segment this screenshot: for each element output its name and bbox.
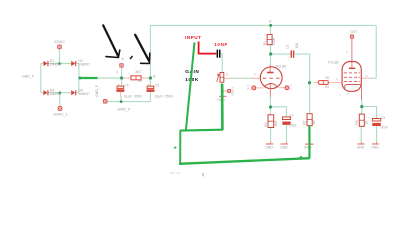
- wire C2 to GND: [286, 125, 288, 143]
- svg-text:R9: R9: [138, 79, 142, 83]
- wire 220AC_1 pin rise: [59, 93, 61, 106]
- ground under C2: [280, 142, 288, 150]
- svg-text:OUT: OUT: [350, 30, 357, 34]
- svg-text:GND: GND: [280, 146, 288, 150]
- cathode arc: [264, 83, 277, 87]
- pin lead pot gnd stub: [224, 90, 228, 92]
- resistor R4 grid stopper: [318, 76, 330, 89]
- node dot triode cathode: [269, 105, 272, 108]
- node dot pot gnd: [221, 90, 224, 93]
- annotation arrow 2: [130, 35, 149, 64]
- ground under R5: [357, 142, 365, 150]
- grid dashes rows: [344, 73, 360, 82]
- wire plate node to C1: [271, 53, 291, 55]
- svg-text:1N4007: 1N4007: [50, 92, 62, 96]
- svg-text:GND: GND: [304, 146, 312, 150]
- svg-text:GND: GND: [357, 146, 365, 150]
- node dot bridge output: [78, 77, 81, 80]
- pin lead pot wiper: [224, 77, 232, 79]
- pentode U2 PCL86: [342, 39, 361, 100]
- pin OUT: [346, 30, 357, 54]
- plate lead from OUT: [351, 39, 353, 69]
- pin 220AC: [54, 40, 65, 49]
- svg-text:C5: C5: [155, 83, 159, 87]
- svg-text:GND: GND: [371, 146, 379, 150]
- wire GND_F rail horizontal: [108, 101, 151, 103]
- wire right edge to pentode pin2: [370, 77, 376, 79]
- cathode lead: [269, 84, 271, 97]
- cathode lead: [361, 84, 363, 100]
- diode D1: [43, 61, 48, 66]
- wire C5 bottom to rail: [149, 92, 151, 102]
- wire grid node down to R2: [309, 83, 311, 114]
- svg-text:PCL86: PCL86: [276, 64, 286, 68]
- wire cathode node to R3: [269, 107, 271, 115]
- svg-text:1N4007: 1N4007: [78, 92, 90, 96]
- annotation arrow 1: [103, 25, 120, 57]
- wire C4 bottom to GND_F rail: [120, 96, 122, 102]
- pin lead pentode pin2 right: [362, 77, 371, 79]
- wire R3 to GND: [270, 128, 272, 144]
- pin heater right triode: [285, 84, 292, 91]
- pin lead triode heater left: [256, 87, 263, 89]
- wire cathode node to R5: [361, 107, 363, 115]
- wire bridge left side: [40, 64, 42, 93]
- annotation green pot-bottom wire: [221, 82, 223, 84]
- wire C1 to pentode grid node: [294, 54, 309, 83]
- resistor R3 cathode: [264, 115, 278, 128]
- svg-text:2: 2: [226, 73, 228, 77]
- ground under C3: [371, 142, 379, 150]
- node dot A: [120, 76, 123, 79]
- capacitor C1: [286, 42, 299, 58]
- diode D3: [43, 90, 48, 95]
- capacitor C2: [282, 114, 296, 128]
- cathode hook: [345, 84, 362, 88]
- svg-text:GND_F: GND_F: [22, 74, 34, 78]
- wire C3 to GND: [376, 126, 378, 143]
- svg-text:GND: GND: [265, 146, 273, 150]
- pin 220AC_1: [53, 106, 68, 116]
- diode D4: [71, 90, 76, 95]
- annotation green tick corner: [299, 156, 302, 159]
- pin A: [116, 57, 125, 74]
- pin lead R4 to pentode: [329, 82, 343, 84]
- resistor R2: [303, 114, 317, 126]
- wire cathode node to C3: [362, 107, 377, 119]
- wire top edge down to R1: [270, 25, 272, 34]
- wire plate node down to triode plate: [270, 54, 272, 65]
- plate lead: [269, 65, 271, 73]
- node dot triode plate: [269, 52, 272, 55]
- node dot 220AC top: [58, 62, 61, 65]
- ground under R3: [265, 142, 273, 150]
- wire 10NF cap to pot top: [221, 54, 223, 73]
- svg-text:31uF / 350V: 31uF / 350V: [124, 94, 143, 98]
- wire B down to C5: [149, 78, 151, 86]
- svg-text:31uF / 350V: 31uF / 350V: [155, 94, 174, 98]
- pin lead triode grid: [251, 77, 261, 79]
- node dot B: [149, 76, 152, 79]
- wire triode cathode down: [269, 97, 271, 107]
- annotation tick mark: [130, 56, 132, 58]
- svg-text:GND_F: GND_F: [95, 85, 99, 97]
- wire bridge top row: [41, 63, 44, 65]
- svg-text:1N4007: 1N4007: [50, 63, 62, 67]
- annotation green bottom wire: [179, 158, 310, 164]
- wire bridge output to node A: [79, 77, 122, 79]
- svg-text:R2: R2: [303, 121, 307, 125]
- grid dashes: [263, 77, 280, 79]
- node dot pentode grid: [308, 81, 311, 84]
- svg-text:R5: R5: [355, 120, 359, 124]
- pin lead triode heater right: [279, 87, 285, 89]
- svg-text:PCL86: PCL86: [328, 61, 338, 65]
- gnd symbol pot: [217, 96, 226, 102]
- annotation capacitor 10NF plates: [217, 50, 219, 58]
- plate bar: [349, 67, 355, 69]
- svg-text:C4: C4: [124, 83, 128, 87]
- pin lead node A to resistor R9: [124, 77, 132, 79]
- svg-text:220AC: 220AC: [54, 40, 65, 44]
- annotation green horizontal mid wire: [180, 129, 223, 132]
- pin GND1 near pot: [227, 87, 234, 96]
- pin GND_F rail: [103, 99, 108, 104]
- svg-text:3K7: 3K7: [135, 70, 141, 74]
- svg-text:20uF: 20uF: [289, 124, 297, 128]
- svg-text:10NF: 10NF: [214, 42, 228, 47]
- wire node A down to C4: [121, 78, 123, 86]
- wire pot wiper to triode grid: [232, 77, 252, 79]
- svg-text:100K: 100K: [272, 37, 276, 46]
- pin lead pentode grid left: [314, 82, 319, 84]
- pin lead C4 bottom: [120, 92, 122, 97]
- plate bar: [267, 72, 274, 74]
- resistor R5 pentode cathode: [355, 114, 369, 126]
- svg-text:220AC_1: 220AC_1: [53, 112, 68, 116]
- node dot top edge R1: [269, 24, 272, 27]
- op triode U1 PCL86: [260, 65, 282, 97]
- annotation green slanted wire: [186, 42, 195, 130]
- potentiometer GAIN 100K: [217, 73, 229, 83]
- wire R1 bottom to plate node: [270, 45, 272, 54]
- wire R5 to GND: [360, 126, 362, 143]
- diode D2: [71, 61, 76, 66]
- wire bridge bottom row: [41, 92, 44, 94]
- resistor R1: [263, 35, 276, 46]
- node dot 220AC bottom: [59, 91, 62, 94]
- svg-text:R1: R1: [263, 41, 267, 45]
- capacitor C4: [116, 83, 143, 99]
- annotation green left vertical wire: [179, 130, 181, 163]
- wire node A pin drop: [121, 68, 123, 79]
- wire bridge right side: [78, 64, 80, 93]
- svg-text:R4: R4: [325, 85, 329, 89]
- wire box top edge: [150, 24, 376, 26]
- capacitor C5: [147, 83, 174, 99]
- pin heater left triode: [247, 84, 256, 91]
- svg-text:C3: C3: [381, 116, 385, 120]
- annotation red input wire: [199, 42, 217, 54]
- svg-text:1K5: 1K5: [274, 121, 278, 127]
- faint footer marks: [170, 172, 180, 173]
- annotation green highlight bridge output: [80, 77, 97, 79]
- annotation green right vertical wire: [308, 125, 310, 158]
- svg-text:B: B: [269, 20, 271, 24]
- annotation green tick left: [174, 147, 176, 148]
- svg-text:C1: C1: [286, 44, 290, 48]
- wire pentode cathode down: [361, 100, 363, 107]
- svg-text:R3: R3: [264, 122, 268, 126]
- svg-text:1M: 1M: [312, 120, 316, 125]
- ground on green net: [304, 144, 314, 150]
- node dot pentode cathode: [360, 105, 363, 108]
- svg-text:1N4007: 1N4007: [78, 63, 90, 67]
- svg-text:C2: C2: [289, 114, 293, 118]
- wire cathode node to C2: [270, 107, 286, 117]
- svg-text:INPUT: INPUT: [185, 35, 202, 40]
- wire 220AC pin drop: [59, 49, 61, 64]
- resistor R9 3K7: [131, 70, 142, 83]
- svg-text:10N: 10N: [295, 42, 299, 49]
- pin lead R9 to node B: [141, 77, 150, 79]
- svg-text:GND_F: GND_F: [117, 107, 131, 112]
- svg-text:GND1: GND1: [231, 87, 235, 96]
- wire box right edge: [375, 25, 377, 78]
- wire node B column up to box top: [149, 25, 151, 78]
- svg-text:20uF: 20uF: [380, 125, 388, 129]
- node dot C4 rail: [120, 100, 123, 103]
- capacitor C3: [372, 116, 388, 129]
